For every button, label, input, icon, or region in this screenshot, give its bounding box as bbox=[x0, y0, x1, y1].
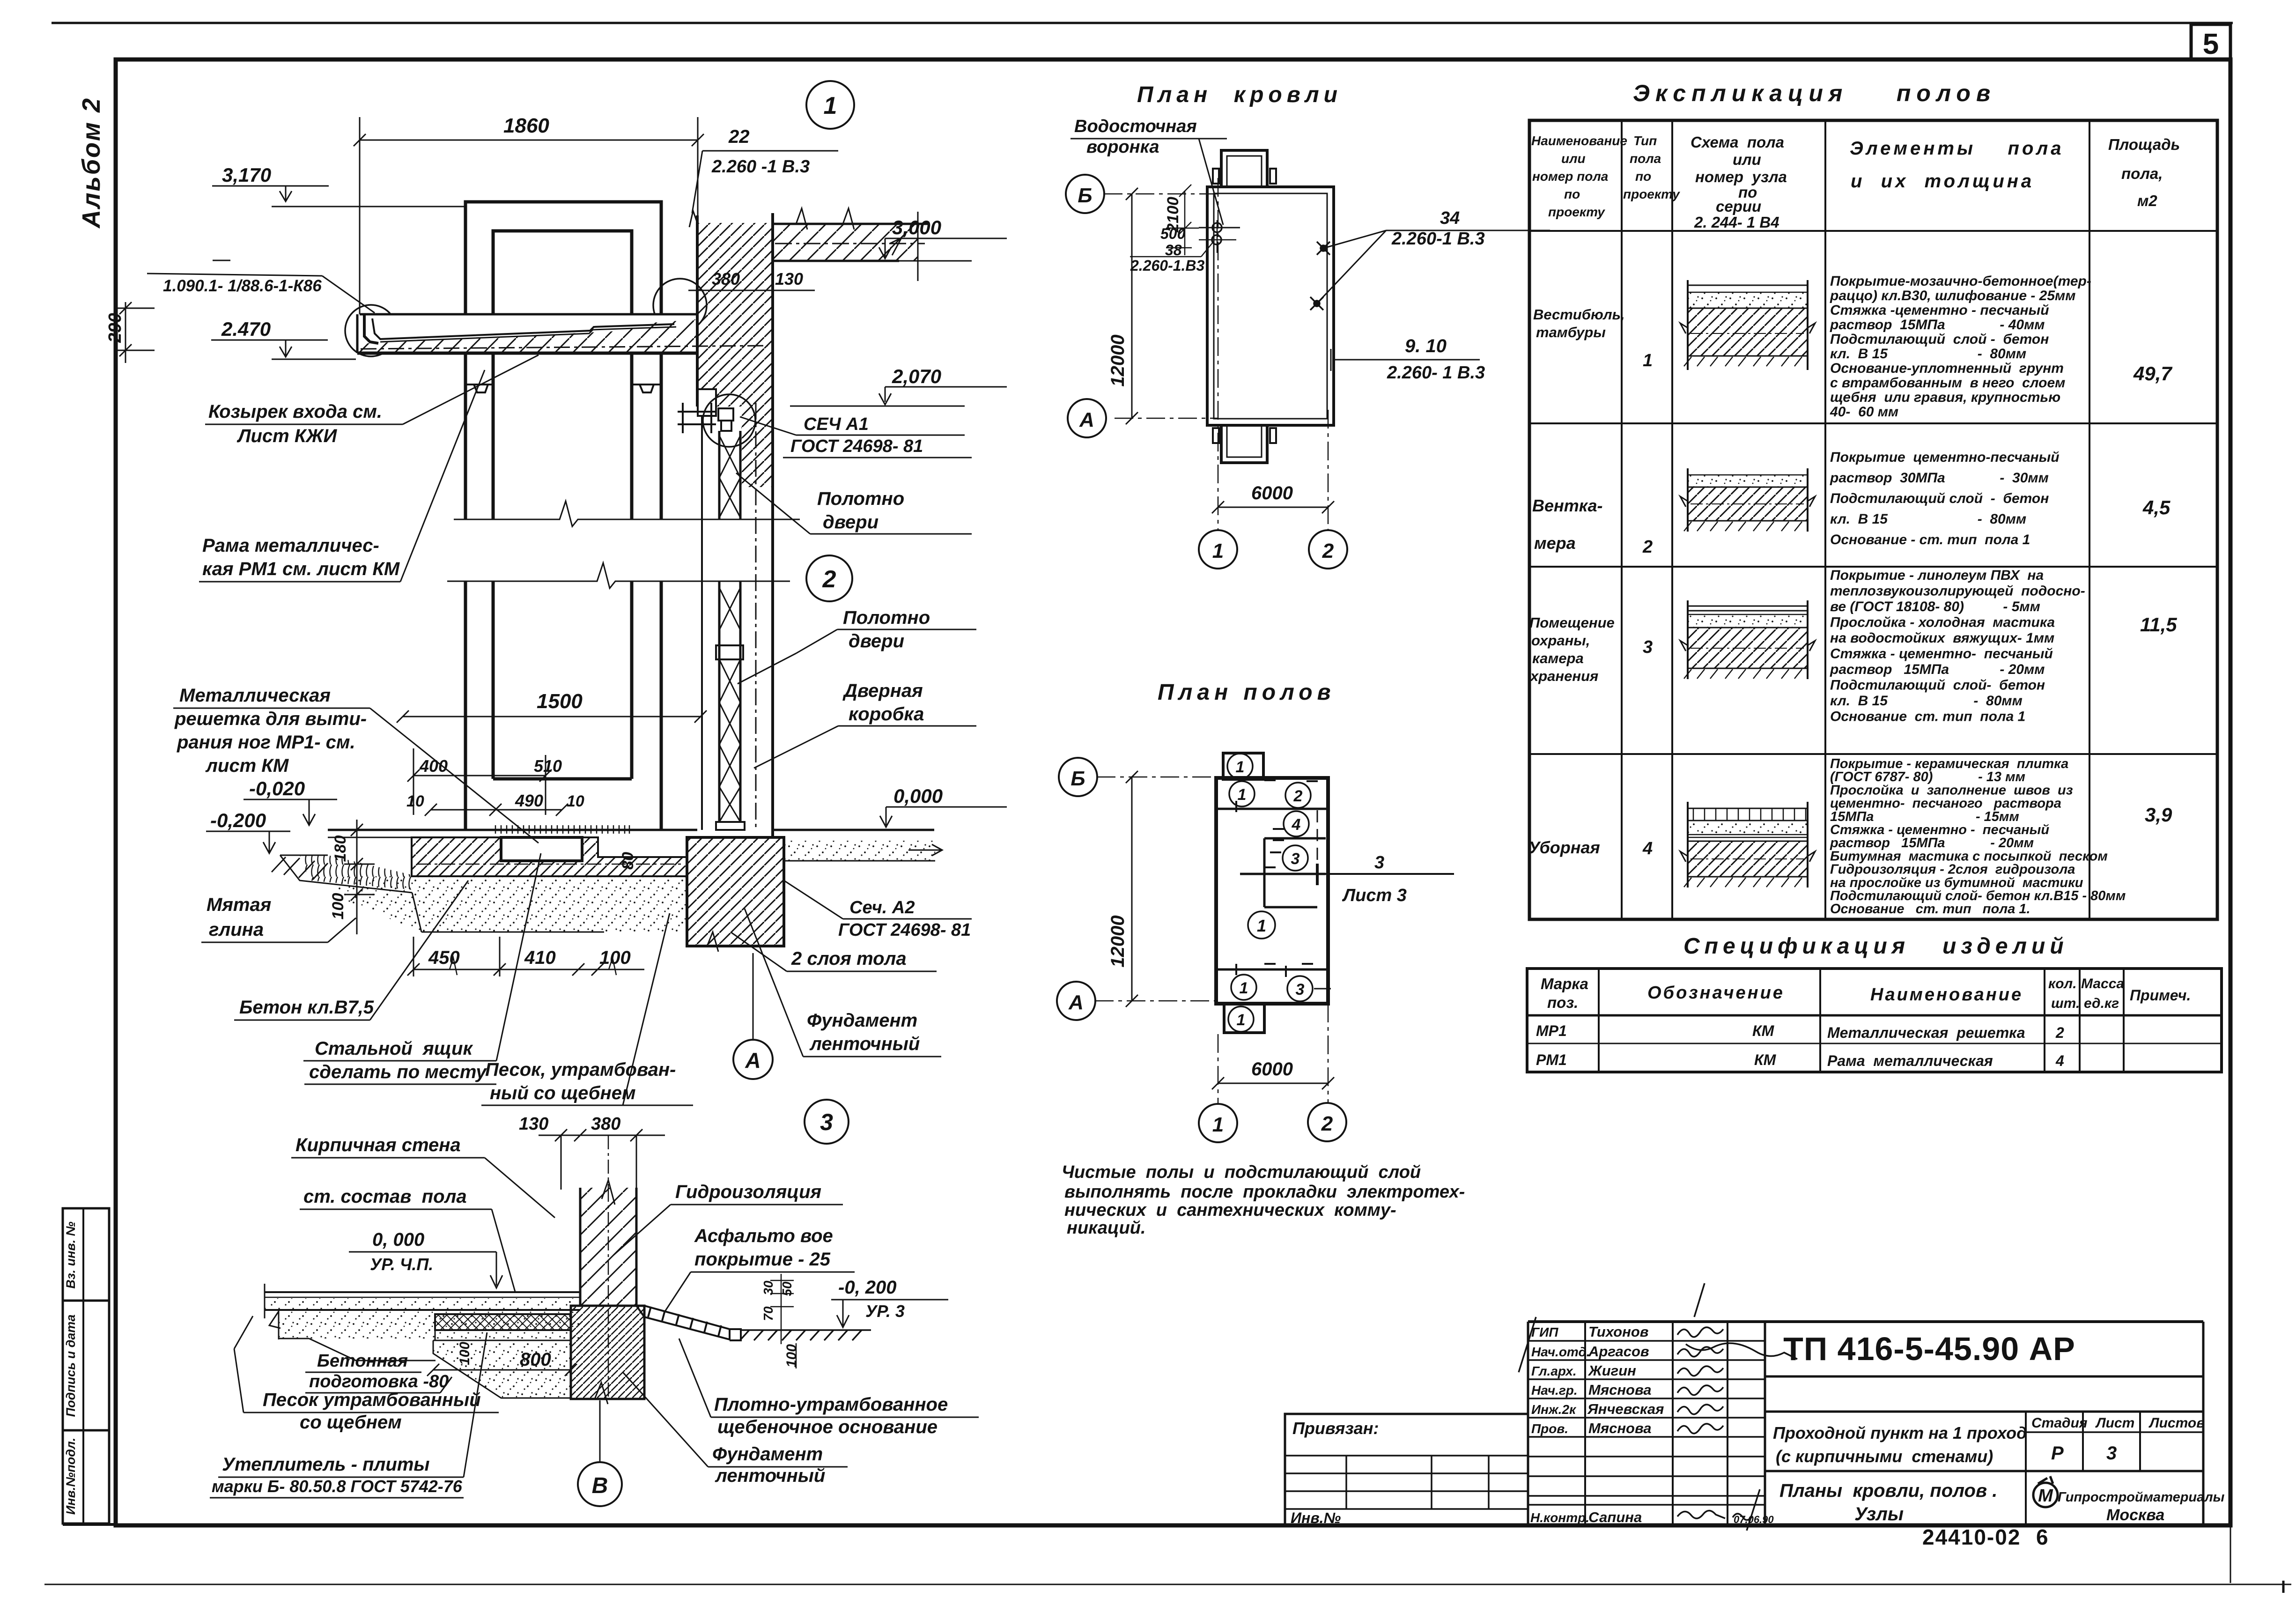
svg-text:на прослойке из бутимной маст: на прослойке из бутимной мастики bbox=[1830, 875, 2083, 890]
svg-text:Битумная мастика с посыпкой: Битумная мастика с посыпкой песком bbox=[1830, 849, 2108, 864]
svg-text:Пров.: Пров. bbox=[1531, 1421, 1568, 1436]
svg-text:Наименование: Наименование bbox=[1531, 133, 1627, 148]
svg-text:Вз. инв. №: Вз. инв. № bbox=[64, 1221, 78, 1288]
svg-text:хранения: хранения bbox=[1529, 668, 1598, 684]
svg-text:22: 22 bbox=[728, 126, 750, 147]
svg-text:Покрытие цементно-песчаный: Покрытие цементно-песчаный bbox=[1830, 450, 2060, 465]
svg-text:Р: Р bbox=[2051, 1443, 2064, 1464]
svg-text:Листов: Листов bbox=[2148, 1415, 2205, 1431]
svg-text:450: 450 bbox=[428, 947, 460, 968]
svg-text:Лист: Лист bbox=[2095, 1415, 2134, 1431]
clay wedge left bbox=[300, 855, 412, 890]
svg-text:2. 244- 1 В4: 2. 244- 1 В4 bbox=[1694, 214, 1779, 231]
svg-text:кл. В 15: кл. В 15 - 80мм bbox=[1830, 511, 2026, 527]
svg-text:1: 1 bbox=[1643, 351, 1653, 370]
svg-text:380: 380 bbox=[712, 269, 740, 288]
svg-text:никаций.: никаций. bbox=[1067, 1218, 1146, 1238]
svg-text:3: 3 bbox=[1296, 981, 1305, 999]
label 1.090.1-1/88.6-1-К86 bbox=[147, 260, 375, 313]
svg-text:пола: пола bbox=[1630, 151, 1661, 166]
svg-text:решетка для выти-: решетка для выти- bbox=[174, 709, 367, 729]
svg-text:Кирпичная стена: Кирпичная стена bbox=[295, 1135, 461, 1155]
svg-text:38: 38 bbox=[1165, 242, 1182, 259]
svg-text:-0, 200: -0, 200 bbox=[838, 1277, 897, 1298]
sheet number box "5" top right bbox=[2191, 24, 2230, 60]
plan walls bbox=[1216, 778, 1328, 1004]
svg-text:07.06.90: 07.06.90 bbox=[1734, 1514, 1774, 1525]
svg-text:Стяжка -цементно - песчаный: Стяжка -цементно - песчаный bbox=[1830, 303, 2049, 318]
svg-text:рания ног МР1- см.: рания ног МР1- см. bbox=[177, 732, 355, 753]
canopy detail circle right bbox=[653, 279, 707, 332]
roof outline double bbox=[1207, 187, 1334, 425]
svg-text:нических и сантехнических к: нических и сантехнических комму- bbox=[1064, 1200, 1396, 1220]
ground line right with hatch ticks bbox=[740, 1330, 871, 1340]
axis circle А bbox=[733, 1040, 773, 1079]
svg-text:Стадия: Стадия bbox=[2031, 1415, 2088, 1431]
svg-text:ный со щебнем: ный со щебнем bbox=[490, 1083, 636, 1103]
svg-text:двери: двери bbox=[849, 631, 904, 651]
svg-text:камера: камера bbox=[1532, 650, 1584, 666]
canopy detail circle left bbox=[345, 305, 397, 356]
svg-text:10: 10 bbox=[567, 792, 584, 810]
svg-text:5: 5 bbox=[2203, 28, 2219, 60]
svg-text:Плотно-утрамбованное: Плотно-утрамбованное bbox=[714, 1394, 948, 1415]
svg-text:Асфальто вое: Асфальто вое bbox=[694, 1226, 833, 1246]
level 0,000 right bbox=[880, 807, 1007, 827]
svg-text:Обозначение: Обозначение bbox=[1647, 983, 1785, 1003]
dim 130 380 bbox=[539, 1129, 665, 1400]
svg-text:м2: м2 bbox=[2137, 192, 2157, 209]
dim 6000 bbox=[1212, 501, 1334, 513]
concrete prep + sand under wall bbox=[433, 1340, 571, 1398]
svg-text:1: 1 bbox=[1237, 1011, 1246, 1029]
dotted strip right of foundation bbox=[784, 841, 935, 861]
svg-text:6000: 6000 bbox=[1251, 483, 1293, 503]
svg-text:2: 2 bbox=[1642, 537, 1653, 557]
svg-text:Фундамент: Фундамент bbox=[712, 1444, 823, 1464]
svg-text:или: или bbox=[1561, 151, 1586, 166]
svg-text:Полотно: Полотно bbox=[843, 607, 930, 628]
svg-text:Площадь: Площадь bbox=[2108, 136, 2180, 153]
svg-text:Гл.арх.: Гл.арх. bbox=[1531, 1364, 1577, 1378]
concrete underfloor block bbox=[412, 837, 687, 876]
svg-text:Рама металлическая: Рама металлическая bbox=[1827, 1052, 1993, 1069]
svg-text:Инв.№подл.: Инв.№подл. bbox=[64, 1438, 78, 1515]
svg-text:Н.контр.: Н.контр. bbox=[1530, 1510, 1589, 1525]
svg-text:двери: двери bbox=[823, 512, 879, 533]
svg-text:2.470: 2.470 bbox=[221, 318, 271, 340]
svg-text:Лист 3: Лист 3 bbox=[1342, 886, 1407, 905]
room number circles bbox=[1229, 781, 1255, 806]
svg-text:покрытие - 25: покрытие - 25 bbox=[694, 1249, 831, 1270]
svg-text:130: 130 bbox=[775, 269, 803, 288]
svg-text:2.260-1 В.3: 2.260-1 В.3 bbox=[1391, 229, 1485, 249]
svg-text:Наименование: Наименование bbox=[1870, 985, 2023, 1005]
svg-text:проекту: проекту bbox=[1548, 205, 1605, 219]
svg-text:Лист КЖИ: Лист КЖИ bbox=[236, 426, 338, 446]
svg-text:1: 1 bbox=[1257, 916, 1266, 935]
svg-text:Водосточная: Водосточная bbox=[1074, 117, 1197, 136]
svg-text:кл. В 15: кл. В 15 - 80мм bbox=[1830, 346, 2026, 362]
svg-text:раствор 30МПа -: раствор 30МПа - 30мм bbox=[1830, 470, 2049, 486]
svg-text:3,000: 3,000 bbox=[892, 216, 941, 238]
svg-text:Б: Б bbox=[1070, 767, 1085, 790]
svg-text:Бетон кл.В7,5: Бетон кл.В7,5 bbox=[239, 997, 374, 1018]
svg-text:Элементы пола: Элементы пола bbox=[1850, 138, 2064, 159]
svg-text:Рама металличес-: Рама металличес- bbox=[202, 535, 379, 556]
svg-text:Козырек входа см.: Козырек входа см. bbox=[208, 401, 382, 422]
svg-text:План кровли: План кровли bbox=[1137, 82, 1342, 107]
svg-text:СЕЧ А1: СЕЧ А1 bbox=[804, 414, 869, 434]
level mark 3,170 bbox=[212, 186, 466, 207]
svg-text:Инв.№: Инв.№ bbox=[1291, 1509, 1341, 1526]
svg-text:по: по bbox=[1564, 187, 1580, 201]
svg-text:2.260- 1 В.3: 2.260- 1 В.3 bbox=[1387, 363, 1485, 383]
svg-text:Гидроизоляция - 2слоя гидроиз: Гидроизоляция - 2слоя гидроизола bbox=[1830, 862, 2075, 877]
svg-text:Привязан:: Привязан: bbox=[1292, 1419, 1379, 1438]
svg-text:ленточный: ленточный bbox=[809, 1034, 920, 1054]
svg-text:выполнять после прокладки э: выполнять после прокладки электротех- bbox=[1064, 1182, 1465, 1202]
svg-text:24410-02: 24410-02 bbox=[1922, 1525, 2021, 1549]
ground dotted sand area bbox=[337, 876, 687, 932]
bottom tambour bbox=[1224, 1004, 1264, 1033]
svg-text:пола,: пола, bbox=[2121, 165, 2163, 182]
svg-text:Аргасов: Аргасов bbox=[1588, 1343, 1649, 1360]
svg-text:Вестибюль,: Вестибюль, bbox=[1533, 306, 1625, 323]
svg-text:12000: 12000 bbox=[1107, 334, 1128, 386]
funnel symbols bbox=[1212, 223, 1222, 232]
vertical dims 180 / 100 left bbox=[344, 820, 375, 934]
svg-text:ГОСТ 24698- 81: ГОСТ 24698- 81 bbox=[838, 920, 971, 940]
svg-text:Мяснова: Мяснова bbox=[1588, 1382, 1652, 1398]
svg-text:ленточный: ленточный bbox=[715, 1465, 825, 1486]
svg-text:4: 4 bbox=[1642, 839, 1653, 858]
dim 12000 vertical bbox=[1126, 771, 1138, 1007]
svg-text:ед.кг: ед.кг bbox=[2084, 996, 2119, 1011]
svg-text:70: 70 bbox=[761, 1306, 775, 1321]
dim 12000 vertical bbox=[1126, 188, 1138, 424]
svg-text:Уборная: Уборная bbox=[1528, 838, 1600, 857]
svg-text:Подстилающий слой - бетон: Подстилающий слой - бетон bbox=[1830, 332, 2049, 347]
svg-text:Полотно: Полотно bbox=[817, 488, 904, 509]
svg-text:3: 3 bbox=[1643, 637, 1653, 657]
foundation under wall bbox=[571, 1306, 644, 1399]
svg-text:500: 500 bbox=[1160, 225, 1186, 242]
svg-text:3,9: 3,9 bbox=[2145, 804, 2172, 826]
svg-text:Марка: Марка bbox=[1541, 975, 1588, 992]
bottom tambour bbox=[1221, 425, 1267, 463]
svg-text:ГОСТ 24698- 81: ГОСТ 24698- 81 bbox=[790, 436, 923, 456]
svg-text:Инж.2к: Инж.2к bbox=[1531, 1402, 1577, 1417]
svg-text:40- 60 мм: 40- 60 мм bbox=[1830, 404, 1898, 420]
svg-text:теплозвукоизолирующей подосно: теплозвукоизолирующей подосно- bbox=[1830, 584, 2085, 599]
svg-text:Подстилающий слой - бетон: Подстилающий слой - бетон bbox=[1830, 491, 2049, 506]
svg-text:Основание ст. тип пола 1.: Основание ст. тип пола 1. bbox=[1830, 902, 2030, 917]
svg-text:раствор 15МПа - 2: раствор 15МПа - 20мм bbox=[1830, 836, 2034, 851]
svg-text:Спецификация изделий: Спецификация изделий bbox=[1683, 934, 2068, 959]
asphalt apron right bbox=[636, 1306, 741, 1340]
svg-text:Подпись и дата: Подпись и дата bbox=[64, 1315, 78, 1417]
row2 floor schematic bbox=[1680, 468, 1815, 532]
svg-text:Прослойка и заполнение швов: Прослойка и заполнение швов из bbox=[1830, 783, 2073, 798]
dim 290 vertical bbox=[117, 302, 155, 363]
small dims right bbox=[770, 1274, 794, 1344]
detail circle 1 bbox=[806, 81, 854, 129]
svg-text:или: или bbox=[1733, 151, 1761, 168]
floor slab left of wall bbox=[265, 1284, 580, 1318]
svg-text:1860: 1860 bbox=[503, 114, 549, 137]
svg-text:(с кирпичными стенами): (с кирпичными стенами) bbox=[1776, 1447, 1993, 1466]
svg-text:Металлическая: Металлическая bbox=[179, 685, 331, 706]
canopy slab bbox=[357, 314, 768, 353]
svg-text:80: 80 bbox=[619, 852, 637, 870]
svg-text:Песок, утрамбован-: Песок, утрамбован- bbox=[485, 1059, 676, 1080]
svg-text:КМ: КМ bbox=[1754, 1051, 1777, 1068]
svg-text:3: 3 bbox=[820, 1109, 833, 1135]
svg-text:проекту: проекту bbox=[1623, 187, 1680, 201]
svg-text:-0,020: -0,020 bbox=[249, 777, 305, 799]
svg-text:0,000: 0,000 bbox=[893, 785, 943, 807]
svg-text:10: 10 bbox=[406, 792, 424, 810]
svg-text:цементно- песчаного раствор: цементно- песчаного раствора bbox=[1830, 796, 2061, 811]
svg-text:ТП 416-5-45.90 АР: ТП 416-5-45.90 АР bbox=[1783, 1331, 2075, 1367]
svg-text:2.260 -1 В.3: 2.260 -1 В.3 bbox=[711, 157, 810, 177]
svg-text:раствор 15МПа -: раствор 15МПа - 20мм bbox=[1830, 662, 2045, 677]
svg-text:380: 380 bbox=[591, 1114, 620, 1134]
svg-text:100: 100 bbox=[457, 1342, 472, 1365]
svg-text:А: А bbox=[745, 1048, 760, 1072]
foundation right hatched bbox=[687, 837, 784, 946]
svg-text:с втрамбованным в него слоем: с втрамбованным в него слоем bbox=[1830, 375, 2065, 391]
svg-text:раццо) кл.В30, шлифование - 25: раццо) кл.В30, шлифование - 25мм bbox=[1830, 288, 2075, 303]
right building wall with hatch bbox=[689, 211, 773, 837]
svg-text:2: 2 bbox=[2055, 1024, 2064, 1041]
level -0,020 bbox=[244, 799, 337, 825]
svg-text:Экспликация полов: Экспликация полов bbox=[1633, 80, 1996, 106]
svg-text:мера: мера bbox=[1534, 533, 1576, 553]
svg-text:А: А bbox=[1079, 408, 1094, 431]
svg-text:130: 130 bbox=[519, 1114, 548, 1134]
svg-text:со щебнем: со щебнем bbox=[300, 1412, 402, 1433]
svg-text:Тип: Тип bbox=[1633, 133, 1657, 148]
svg-text:Подстилающий слой- бетон: Подстилающий слой- бетон bbox=[1830, 678, 2045, 693]
svg-text:шт.: шт. bbox=[2051, 996, 2080, 1011]
svg-text:-0,200: -0,200 bbox=[210, 809, 266, 831]
svg-text:Жигин: Жигин bbox=[1587, 1362, 1636, 1379]
svg-text:ст. состав пола: ст. состав пола bbox=[303, 1186, 467, 1207]
svg-text:Чистые полы и подстилающий: Чистые полы и подстилающий слой bbox=[1062, 1162, 1421, 1182]
door jamb ticks bbox=[1236, 780, 1318, 977]
axis circles bbox=[1066, 175, 1104, 213]
svg-text:Бетонная: Бетонная bbox=[317, 1351, 408, 1371]
door leaf with cross bracing bbox=[716, 431, 745, 830]
svg-text:800: 800 bbox=[520, 1349, 551, 1370]
svg-text:подготовка -80: подготовка -80 bbox=[309, 1372, 449, 1391]
svg-text:Нач.отд.: Нач.отд. bbox=[1531, 1345, 1590, 1359]
svg-text:КМ: КМ bbox=[1752, 1022, 1775, 1039]
svg-text:49,7: 49,7 bbox=[2133, 362, 2172, 385]
door head frame detail bbox=[678, 403, 733, 433]
svg-text:Мятая: Мятая bbox=[207, 895, 271, 915]
break lines across section bbox=[447, 501, 800, 588]
svg-text:Гипростройматериалы: Гипростройматериалы bbox=[2058, 1490, 2225, 1505]
svg-text:1.090.1- 1/88.6-1-К86: 1.090.1- 1/88.6-1-К86 bbox=[163, 277, 322, 295]
svg-text:Планы кровли, полов .: Планы кровли, полов . bbox=[1779, 1480, 1997, 1501]
svg-text:11,5: 11,5 bbox=[2140, 614, 2177, 636]
svg-text:М: М bbox=[2038, 1486, 2053, 1506]
svg-text:глина: глина bbox=[209, 919, 264, 940]
dims 10 490 10 bbox=[425, 804, 568, 816]
svg-text:410: 410 bbox=[524, 947, 556, 968]
svg-text:50: 50 bbox=[780, 1281, 794, 1296]
svg-text:4: 4 bbox=[1292, 816, 1301, 834]
detail circle 3 bbox=[805, 1100, 849, 1144]
svg-text:Проходной пункт на 1 проход: Проходной пункт на 1 проход bbox=[1773, 1423, 2027, 1442]
svg-text:лист КМ: лист КМ bbox=[205, 755, 289, 776]
small dims 2100 500 38 bbox=[1166, 185, 1199, 255]
level 2,070 bbox=[790, 387, 1007, 406]
dim 6000 bbox=[1212, 1077, 1334, 1089]
brick wall hatched bbox=[580, 1188, 636, 1306]
svg-text:сделать по месту: сделать по месту bbox=[309, 1062, 487, 1082]
row1 floor schematic bbox=[1680, 280, 1815, 370]
partitions bbox=[1216, 809, 1328, 969]
top tambour bbox=[1223, 753, 1263, 779]
svg-text:2: 2 bbox=[1321, 1112, 1333, 1135]
svg-text:Подстилающий слой- бетон кл.В1: Подстилающий слой- бетон кл.В15 - 80мм bbox=[1830, 888, 2126, 903]
note text under floor plan bbox=[1062, 1162, 1465, 1238]
svg-text:Схема пола: Схема пола bbox=[1691, 133, 1784, 151]
insulation crosshatch strip bbox=[435, 1314, 571, 1330]
svg-text:Примеч.: Примеч. bbox=[2130, 987, 2191, 1004]
svg-text:2: 2 bbox=[1293, 787, 1303, 805]
row3 floor schematic bbox=[1680, 600, 1815, 679]
svg-text:1: 1 bbox=[824, 92, 837, 119]
axes dash-dot bbox=[1104, 178, 1328, 529]
svg-text:Помещение: Помещение bbox=[1529, 614, 1615, 631]
sand bed under slab bbox=[279, 1311, 580, 1339]
svg-text:1: 1 bbox=[1236, 758, 1245, 776]
svg-text:щебеночное основание: щебеночное основание bbox=[717, 1417, 938, 1437]
dim 1500 bbox=[397, 710, 707, 723]
level -0,200 bbox=[206, 831, 290, 853]
svg-text:2 слоя тола: 2 слоя тола bbox=[791, 948, 907, 969]
svg-text:3: 3 bbox=[1291, 850, 1300, 868]
svg-text:коробка: коробка bbox=[849, 704, 924, 725]
svg-text:кл. В 15: кл. В 15 - 80мм bbox=[1830, 693, 2023, 709]
svg-text:Основание ст. тип пола 1: Основание ст. тип пола 1 bbox=[1830, 709, 2025, 725]
svg-text:3: 3 bbox=[1374, 853, 1384, 873]
svg-text:9. 10: 9. 10 bbox=[1405, 336, 1447, 356]
svg-text:Вентка-: Вентка- bbox=[1532, 496, 1602, 515]
svg-text:Узлы: Узлы bbox=[1854, 1504, 1904, 1524]
svg-text:1: 1 bbox=[1238, 786, 1247, 804]
svg-text:Янчевская: Янчевская bbox=[1587, 1401, 1664, 1417]
svg-text:кая РМ1 см. лист КМ: кая РМ1 см. лист КМ bbox=[202, 559, 400, 579]
svg-text:воронка: воронка bbox=[1086, 137, 1159, 157]
svg-text:Утеплитель - плиты: Утеплитель - плиты bbox=[222, 1454, 430, 1475]
svg-text:0, 000: 0, 000 bbox=[372, 1229, 424, 1250]
svg-text:УР. 3: УР. 3 bbox=[865, 1302, 905, 1321]
axis circle В bbox=[578, 1462, 622, 1506]
svg-text:1: 1 bbox=[1212, 1113, 1224, 1136]
svg-text:3,170: 3,170 bbox=[222, 164, 271, 186]
axes bbox=[1095, 777, 1328, 1103]
svg-text:Песок утрамбованный: Песок утрамбованный bbox=[263, 1390, 481, 1410]
svg-text:2: 2 bbox=[1322, 540, 1334, 562]
svg-text:УР. Ч.П.: УР. Ч.П. bbox=[370, 1255, 433, 1274]
svg-text:Стяжка - цементно - песчаный: Стяжка - цементно - песчаный bbox=[1830, 822, 2049, 837]
svg-text:раствор 15МПа -: раствор 15МПа - 40мм bbox=[1830, 317, 2045, 333]
svg-text:Прослойка - холодная мастика: Прослойка - холодная мастика bbox=[1830, 615, 2055, 630]
portal lintel outer bbox=[465, 202, 661, 314]
svg-text:6: 6 bbox=[2036, 1525, 2048, 1549]
grate MP1 ticks bbox=[495, 825, 629, 834]
floor line and grate bbox=[328, 830, 934, 837]
svg-text:номер узла: номер узла bbox=[1695, 168, 1787, 185]
svg-text:2,070: 2,070 bbox=[892, 365, 941, 387]
row4 floor schematic bbox=[1680, 802, 1815, 888]
svg-text:охраны,: охраны, bbox=[1531, 632, 1590, 649]
svg-text:4,5: 4,5 bbox=[2142, 496, 2170, 518]
svg-text:номер пола: номер пола bbox=[1532, 169, 1608, 184]
ceiling slab top right bbox=[773, 208, 930, 281]
svg-text:кол.: кол. bbox=[2048, 976, 2077, 991]
svg-text:марки Б- 80.50.8 ГОСТ 5742-76: марки Б- 80.50.8 ГОСТ 5742-76 bbox=[212, 1477, 463, 1496]
svg-text:30: 30 bbox=[761, 1280, 775, 1295]
svg-text:510: 510 bbox=[534, 756, 562, 776]
svg-text:тамбуры: тамбуры bbox=[1536, 324, 1606, 340]
svg-text:Фундамент: Фундамент bbox=[807, 1010, 917, 1031]
pillar corbels bbox=[465, 385, 661, 392]
bottom dims 450 410 100 bbox=[407, 937, 644, 976]
svg-text:ве (ГОСТ 18108- 80) -: ве (ГОСТ 18108- 80) - 5мм bbox=[1830, 599, 2040, 614]
svg-text:поз.: поз. bbox=[1547, 994, 1578, 1011]
svg-text:на водостойких вяжущих- 1мм: на водостойких вяжущих- 1мм bbox=[1830, 630, 2054, 646]
svg-text:Дверная: Дверная bbox=[842, 680, 923, 701]
svg-text:ГИП: ГИП bbox=[1531, 1325, 1558, 1339]
svg-text:15МПа: 15МПа - 15мм bbox=[1830, 809, 2019, 824]
svg-text:12000: 12000 bbox=[1107, 915, 1128, 967]
svg-text:Металлическая решетка: Металлическая решетка bbox=[1827, 1024, 2025, 1041]
svg-text:Мяснова: Мяснова bbox=[1588, 1420, 1652, 1436]
cross markers bbox=[1310, 242, 1330, 310]
svg-text:Масса: Масса bbox=[2081, 976, 2124, 991]
svg-text:2.260-1.В3: 2.260-1.В3 bbox=[1130, 257, 1205, 274]
svg-text:А: А bbox=[1068, 991, 1084, 1014]
dim 1860 bbox=[354, 117, 704, 314]
svg-text:1500: 1500 bbox=[537, 690, 583, 713]
top tambour bbox=[1221, 150, 1267, 187]
svg-text:180: 180 bbox=[332, 836, 349, 862]
svg-text:100: 100 bbox=[784, 1344, 799, 1368]
svg-text:Москва: Москва bbox=[2106, 1506, 2164, 1524]
left margin stamp boxes bbox=[63, 1208, 109, 1524]
svg-text:100: 100 bbox=[329, 893, 347, 920]
portal walls below canopy bbox=[465, 353, 661, 830]
svg-text:РМ1: РМ1 bbox=[1536, 1051, 1567, 1068]
svg-text:Основание - ст. тип пола 1: Основание - ст. тип пола 1 bbox=[1830, 532, 2030, 547]
svg-text:План полов: План полов bbox=[1158, 680, 1336, 705]
svg-text:Нач.гр.: Нач.гр. bbox=[1531, 1383, 1578, 1398]
svg-text:Сапина: Сапина bbox=[1588, 1509, 1642, 1525]
svg-text:по: по bbox=[1635, 169, 1651, 184]
svg-text:1: 1 bbox=[1240, 979, 1248, 997]
svg-text:Стяжка - цементно- песчаный: Стяжка - цементно- песчаный bbox=[1830, 646, 2053, 662]
svg-text:Гидроизоляция: Гидроизоляция bbox=[675, 1182, 821, 1202]
svg-text:6000: 6000 bbox=[1251, 1059, 1293, 1080]
svg-text:Альбом 2: Альбом 2 bbox=[77, 97, 105, 229]
